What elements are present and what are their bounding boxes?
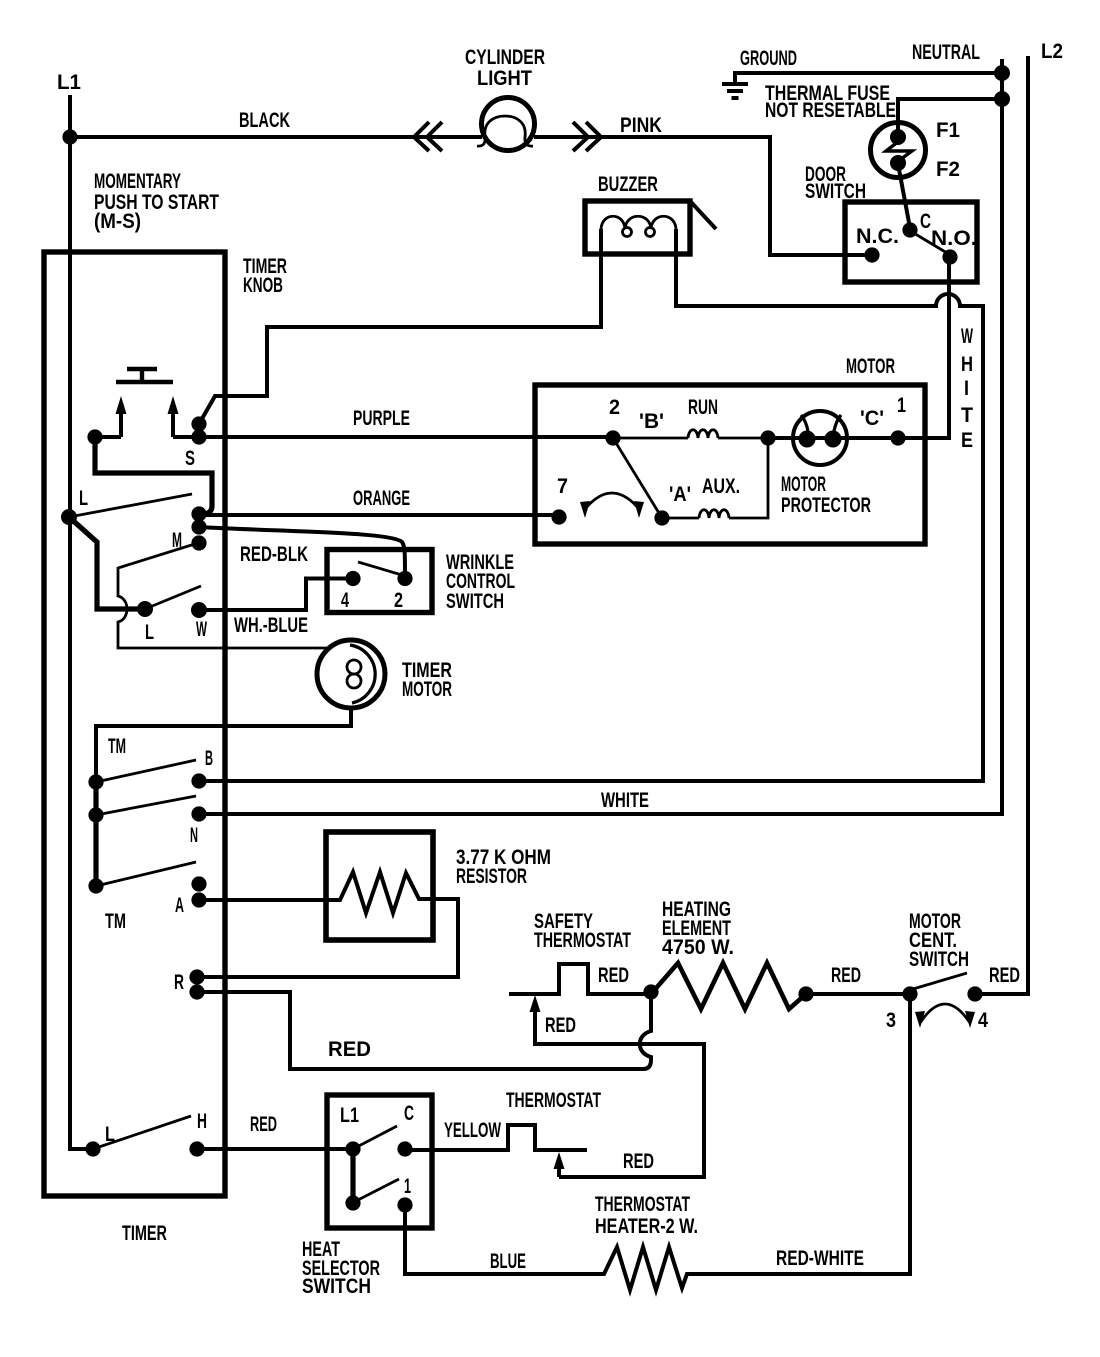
svg-text:N: N <box>190 824 198 847</box>
svg-text:MOTOR: MOTOR <box>781 473 826 496</box>
svg-text:TIMER: TIMER <box>122 1222 167 1245</box>
svg-text:L2: L2 <box>1041 40 1063 63</box>
svg-text:B: B <box>205 747 213 770</box>
svg-text:M: M <box>172 529 182 552</box>
svg-text:R: R <box>174 971 184 994</box>
svg-text:HEATER-2 W.: HEATER-2 W. <box>595 1215 698 1238</box>
svg-text:WH.-BLUE: WH.-BLUE <box>234 614 308 637</box>
svg-text:W: W <box>961 325 973 348</box>
svg-text:SWITCH: SWITCH <box>302 1275 371 1298</box>
svg-text:RUN: RUN <box>688 396 718 419</box>
svg-text:MOTOR: MOTOR <box>846 355 895 378</box>
svg-text:BLACK: BLACK <box>239 109 290 132</box>
svg-text:WHITE: WHITE <box>601 789 649 812</box>
svg-text:F1: F1 <box>936 119 960 142</box>
svg-text:PURPLE: PURPLE <box>353 407 410 430</box>
svg-text:RESISTOR: RESISTOR <box>456 865 527 888</box>
svg-text:N.C.: N.C. <box>856 225 899 248</box>
svg-text:7: 7 <box>557 475 568 498</box>
svg-text:'B': 'B' <box>639 410 664 433</box>
svg-text:YELLOW: YELLOW <box>444 1119 501 1142</box>
svg-text:THERMOSTAT: THERMOSTAT <box>534 929 631 952</box>
svg-text:RED: RED <box>831 964 861 987</box>
svg-text:2: 2 <box>609 396 620 419</box>
svg-text:L: L <box>79 487 88 510</box>
svg-text:MOTOR: MOTOR <box>402 678 452 701</box>
svg-text:C: C <box>404 1102 414 1125</box>
svg-text:KNOB: KNOB <box>243 274 283 297</box>
svg-text:'C': 'C' <box>860 407 884 430</box>
svg-text:NOT RESETABLE: NOT RESETABLE <box>765 99 896 122</box>
svg-text:W: W <box>196 618 207 641</box>
svg-text:LIGHT: LIGHT <box>477 67 532 90</box>
svg-text:CYLINDER: CYLINDER <box>465 46 545 69</box>
svg-text:4: 4 <box>978 1009 988 1032</box>
svg-text:SWITCH: SWITCH <box>909 948 969 971</box>
svg-text:BUZZER: BUZZER <box>598 173 658 196</box>
svg-text:I: I <box>964 377 969 400</box>
svg-text:4750 W.: 4750 W. <box>662 936 734 959</box>
svg-text:1: 1 <box>404 1175 411 1198</box>
svg-text:L1: L1 <box>340 1104 359 1127</box>
svg-text:PINK: PINK <box>620 114 662 137</box>
svg-text:MOMENTARY: MOMENTARY <box>94 170 181 193</box>
svg-text:RED: RED <box>989 964 1020 987</box>
svg-text:L1: L1 <box>57 71 81 94</box>
svg-text:H: H <box>961 353 973 376</box>
svg-text:RED: RED <box>623 1150 654 1173</box>
svg-text:RED: RED <box>250 1113 277 1136</box>
svg-text:TM: TM <box>108 735 126 758</box>
svg-text:THERMOSTAT: THERMOSTAT <box>595 1193 690 1216</box>
svg-text:'A': 'A' <box>669 483 691 506</box>
svg-text:PROTECTOR: PROTECTOR <box>781 494 871 517</box>
svg-text:SWITCH: SWITCH <box>446 590 504 613</box>
svg-text:GROUND: GROUND <box>740 47 797 70</box>
svg-text:4: 4 <box>341 589 349 612</box>
svg-text:(M-S): (M-S) <box>94 210 141 233</box>
svg-text:SWITCH: SWITCH <box>805 180 866 203</box>
svg-text:RED: RED <box>545 1014 576 1037</box>
svg-text:L: L <box>145 621 154 644</box>
svg-text:THERMOSTAT: THERMOSTAT <box>506 1089 601 1112</box>
svg-text:RED-WHITE: RED-WHITE <box>776 1247 864 1270</box>
svg-text:BLUE: BLUE <box>490 1250 526 1273</box>
svg-text:TM: TM <box>105 910 126 933</box>
svg-text:1: 1 <box>897 394 906 417</box>
svg-text:N.O.: N.O. <box>931 227 977 250</box>
svg-text:RED-BLK: RED-BLK <box>240 543 308 566</box>
svg-text:E: E <box>961 429 973 452</box>
svg-text:RED: RED <box>328 1038 371 1061</box>
svg-text:L: L <box>105 1123 115 1146</box>
svg-text:F2: F2 <box>936 158 960 181</box>
svg-text:RED: RED <box>598 964 629 987</box>
svg-text:3: 3 <box>886 1009 896 1032</box>
svg-text:A: A <box>175 894 184 917</box>
svg-text:ORANGE: ORANGE <box>353 487 410 510</box>
svg-text:C: C <box>920 210 931 233</box>
svg-text:H: H <box>197 1110 207 1133</box>
svg-text:S: S <box>185 447 195 470</box>
svg-text:T: T <box>961 404 973 427</box>
svg-text:AUX.: AUX. <box>702 475 740 498</box>
svg-text:2: 2 <box>394 589 403 612</box>
svg-text:NEUTRAL: NEUTRAL <box>912 41 980 64</box>
